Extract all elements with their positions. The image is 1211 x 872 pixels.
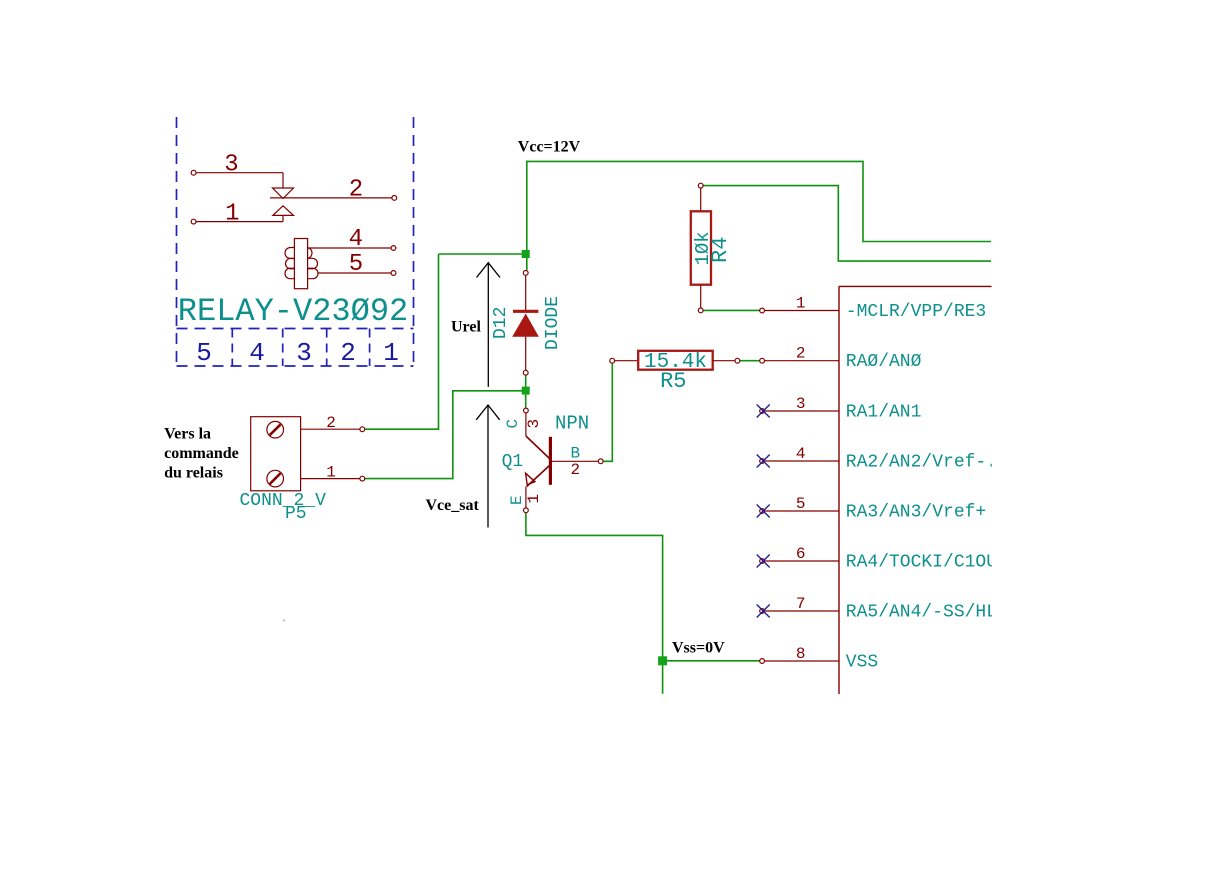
svg-text:1: 1	[383, 338, 399, 368]
svg-text:3: 3	[224, 152, 238, 179]
svg-text:1: 1	[225, 201, 239, 228]
svg-text:Vss=0V: Vss=0V	[672, 640, 725, 657]
svg-text:R4: R4	[708, 237, 733, 263]
svg-text:4: 4	[249, 338, 265, 368]
svg-text:RA3/AN3/Vref+: RA3/AN3/Vref+	[846, 503, 986, 523]
svg-text:2: 2	[340, 338, 356, 368]
svg-text:Q1: Q1	[502, 452, 524, 472]
svg-text:8: 8	[796, 645, 806, 663]
svg-text:E: E	[508, 495, 526, 505]
svg-text:-MCLR/VPP/RE3: -MCLR/VPP/RE3	[846, 302, 986, 322]
svg-text:Vcc=12V: Vcc=12V	[518, 139, 581, 156]
svg-text:1: 1	[796, 295, 806, 313]
svg-text:5: 5	[349, 251, 363, 278]
svg-text:VSS: VSS	[846, 653, 878, 673]
svg-text:DIODE: DIODE	[543, 296, 563, 350]
svg-text:RAØ/ANØ: RAØ/ANØ	[846, 352, 922, 372]
svg-text:1: 1	[326, 464, 336, 482]
svg-text:RA2/AN2/Vref-.: RA2/AN2/Vref-.	[846, 453, 997, 473]
svg-text:B: B	[571, 445, 581, 463]
svg-text:2: 2	[349, 177, 363, 204]
svg-text:2: 2	[326, 414, 336, 432]
svg-text:NPN: NPN	[555, 412, 589, 434]
svg-text:5: 5	[196, 338, 212, 368]
svg-text:C: C	[504, 419, 522, 429]
svg-text:commande: commande	[164, 445, 239, 462]
svg-text:3: 3	[296, 338, 312, 368]
svg-text:3: 3	[796, 395, 806, 413]
svg-text:5: 5	[796, 495, 806, 513]
svg-text:2: 2	[796, 345, 806, 363]
svg-text:RA1/AN1: RA1/AN1	[846, 403, 922, 423]
svg-text:RELAY-V23Ø92: RELAY-V23Ø92	[178, 293, 408, 330]
svg-text:6: 6	[796, 545, 806, 563]
svg-text:4: 4	[349, 226, 363, 253]
svg-text:RA5/AN4/-SS/HL: RA5/AN4/-SS/HL	[846, 603, 997, 623]
svg-text:D12: D12	[491, 307, 511, 339]
svg-text:CONN_2_V: CONN_2_V	[240, 491, 327, 511]
svg-text:Urel: Urel	[451, 319, 481, 336]
svg-text:3: 3	[525, 419, 543, 429]
svg-text:Vce_sat: Vce_sat	[426, 497, 480, 514]
svg-text:RA4/TOCKI/C1OU: RA4/TOCKI/C1OU	[846, 553, 997, 573]
svg-text:2: 2	[571, 461, 581, 479]
svg-text:4: 4	[796, 445, 806, 463]
svg-text:1: 1	[525, 494, 543, 504]
svg-text:Vers la: Vers la	[164, 425, 211, 442]
svg-text:R5: R5	[660, 369, 686, 394]
svg-text:du relais: du relais	[164, 464, 223, 481]
svg-text:7: 7	[796, 595, 806, 613]
svg-text:P5: P5	[285, 504, 307, 524]
